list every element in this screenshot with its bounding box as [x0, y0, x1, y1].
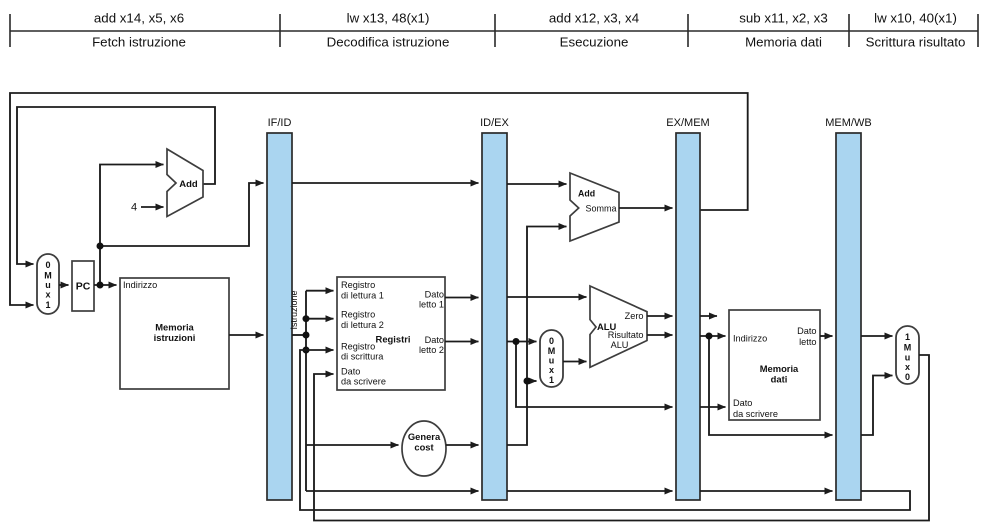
- svg-text:Indirizzo: Indirizzo: [123, 280, 157, 290]
- wire: read data 1 to ID/EX: [445, 297, 479, 299]
- wire: read data 2 from ID/EX to mux M2: [507, 341, 537, 343]
- ALU: [590, 286, 647, 367]
- wire: data memory read data to MEM/WB: [820, 335, 833, 337]
- mux M2 (ALU source): [540, 330, 563, 387]
- wire: Zero to EX/MEM: [647, 315, 673, 317]
- svg-text:Memoria dati: Memoria dati: [745, 34, 822, 49]
- wire: Zero stub out of EX/MEM: [700, 315, 717, 317]
- immediate generator Genera cost: [402, 421, 446, 476]
- svg-text:EX/MEM: EX/MEM: [666, 117, 709, 129]
- wire: rd field to ID/EX: [306, 490, 479, 492]
- svg-text:1: 1: [549, 375, 554, 385]
- wire: PC value to IF/ID: [100, 183, 264, 246]
- adder Somma (branch target): [570, 173, 619, 241]
- svg-text:Esecuzione: Esecuzione: [560, 34, 629, 49]
- instruction memory box: [120, 278, 229, 389]
- svg-text:Add: Add: [179, 179, 198, 190]
- wire: Somma output to EX/MEM: [619, 207, 673, 209]
- adder Add (PC+4): [167, 149, 203, 217]
- svg-text:IF/ID: IF/ID: [268, 117, 292, 129]
- wire: read data from MEM/WB to mux M3: [861, 335, 893, 337]
- wire: instruction bus vertical: [305, 291, 307, 491]
- header instruction labels: [94, 11, 957, 26]
- wire: ALU result bypass to MEM/WB: [709, 336, 833, 435]
- svg-text:di lettura 2: di lettura 2: [341, 320, 384, 330]
- svg-text:M: M: [548, 346, 556, 356]
- mux M1 (PC source): [37, 254, 59, 314]
- wire: rd field ID/EX to EX/MEM: [507, 490, 673, 492]
- wire: write data return loop to Registri: [314, 355, 929, 521]
- svg-text:add x12, x3, x4: add x12, x3, x4: [549, 11, 639, 26]
- svg-text:Add: Add: [578, 189, 595, 199]
- svg-text:0: 0: [549, 336, 554, 346]
- svg-text:Dato: Dato: [425, 290, 444, 300]
- wire: ALU result to EX/MEM: [647, 334, 673, 336]
- svg-text:Risultato: Risultato: [608, 330, 644, 340]
- wire: to read register 1: [306, 290, 334, 292]
- data memory box: [729, 310, 820, 420]
- svg-text:1: 1: [905, 332, 910, 342]
- header stage name labels: [92, 34, 965, 49]
- svg-text:lw x13, 48(x1): lw x13, 48(x1): [347, 11, 430, 26]
- wire: write register number return loop to Registri: [300, 350, 910, 510]
- svg-text:u: u: [905, 353, 911, 363]
- svg-text:add x14, x5, x6: add x14, x5, x6: [94, 11, 184, 26]
- header stage tick marks: [10, 14, 978, 47]
- wire: PC+4 loop Add output to PC mux: [17, 107, 215, 264]
- node: instruction bus junction: [303, 332, 310, 339]
- wire: store data from EX/MEM to data memory: [700, 406, 726, 408]
- node: write register crossing junction: [303, 347, 310, 354]
- wire: PC through IF/ID to ID/EX: [292, 182, 479, 184]
- svg-text:4: 4: [131, 202, 137, 214]
- svg-text:0: 0: [905, 372, 910, 382]
- node: read register 2 junction: [303, 315, 310, 322]
- svg-text:MEM/WB: MEM/WB: [825, 117, 871, 129]
- wire: PC value up to Add input: [100, 165, 164, 286]
- wire: instruction memory output to IF/ID: [229, 334, 264, 336]
- svg-text:da scrivere: da scrivere: [341, 377, 386, 387]
- svg-text:Dato: Dato: [425, 335, 444, 345]
- svg-text:Decodifica istruzione: Decodifica istruzione: [327, 34, 450, 49]
- svg-text:Zero: Zero: [625, 311, 644, 321]
- svg-text:Memoria: Memoria: [155, 322, 194, 333]
- wire: to immediate generator: [306, 444, 399, 446]
- node: PC branch junction: [97, 243, 104, 250]
- wire: ALU result from MEM/WB to mux M3: [861, 376, 893, 436]
- svg-text:Memoria: Memoria: [760, 363, 799, 374]
- svg-text:1: 1: [45, 300, 50, 310]
- svg-text:u: u: [549, 356, 555, 366]
- svg-text:Registri: Registri: [376, 334, 411, 345]
- svg-text:letto: letto: [799, 337, 816, 347]
- wire: read data 2 to ID/EX: [445, 341, 479, 343]
- node: read data 2 junction: [513, 338, 520, 345]
- svg-text:M: M: [44, 271, 52, 281]
- wire: ALU result from EX/MEM to data memory address: [700, 335, 726, 337]
- svg-text:Scrittura risultato: Scrittura risultato: [866, 34, 966, 49]
- wire: constant 4 to Add: [141, 206, 164, 208]
- svg-text:Dato: Dato: [797, 326, 816, 336]
- svg-text:M: M: [904, 343, 912, 353]
- pipeline register MEM/WB: [836, 133, 861, 500]
- svg-text:Fetch istruzione: Fetch istruzione: [92, 34, 186, 49]
- wire: immediate branch to mux M2: [527, 380, 537, 382]
- svg-text:Indirizzo: Indirizzo: [733, 334, 767, 344]
- svg-text:Istruzione: Istruzione: [289, 290, 299, 329]
- svg-text:u: u: [45, 280, 51, 290]
- wire: PC to instruction memory address: [94, 284, 117, 286]
- svg-text:da scrivere: da scrivere: [733, 409, 778, 419]
- wire: PC from ID/EX to adder Somma: [507, 183, 567, 185]
- wire: read data 1 from ID/EX to ALU: [507, 296, 587, 298]
- pipeline register ID/EX: [482, 133, 507, 500]
- wire: mux M2 output to ALU: [563, 361, 587, 363]
- svg-text:x: x: [45, 290, 50, 300]
- pipeline register IF/ID: [267, 133, 292, 500]
- svg-text:sub x11, x2, x3: sub x11, x2, x3: [739, 11, 827, 26]
- svg-text:x: x: [549, 365, 554, 375]
- svg-text:PC: PC: [76, 281, 91, 293]
- svg-text:Registro: Registro: [341, 342, 375, 352]
- node: immediate junction: [524, 378, 531, 385]
- svg-text:ID/EX: ID/EX: [480, 117, 509, 129]
- svg-text:0: 0: [45, 260, 50, 270]
- header timeline line: [10, 30, 978, 32]
- node: ALU result junction: [706, 333, 713, 340]
- svg-text:Dato: Dato: [733, 398, 752, 408]
- svg-text:letto 1: letto 1: [419, 300, 444, 310]
- mux M3 (write-back source): [896, 326, 919, 384]
- svg-text:ALU: ALU: [611, 340, 629, 350]
- pipeline register EX/MEM: [676, 133, 700, 500]
- svg-text:dati: dati: [771, 374, 788, 385]
- svg-text:Somma: Somma: [585, 204, 616, 214]
- svg-text:lw x10, 40(x1): lw x10, 40(x1): [874, 11, 957, 26]
- wire: read data 2 branch to EX/MEM (store data): [516, 342, 673, 408]
- svg-text:Dato: Dato: [341, 367, 360, 377]
- wire: to read register 2: [306, 318, 334, 320]
- svg-text:cost: cost: [414, 442, 433, 453]
- wire: branch-target outer loop EX/MEM to PC mux: [10, 93, 748, 305]
- svg-text:letto 2: letto 2: [419, 345, 444, 355]
- svg-text:di lettura 1: di lettura 1: [341, 291, 384, 301]
- node: PC output junction: [97, 282, 104, 289]
- svg-text:Genera: Genera: [408, 431, 441, 442]
- svg-text:Registro: Registro: [341, 280, 375, 290]
- svg-text:di scrittura: di scrittura: [341, 352, 384, 362]
- svg-text:istruzioni: istruzioni: [154, 332, 196, 343]
- wire: rd field EX/MEM to MEM/WB: [700, 490, 833, 492]
- svg-text:x: x: [905, 362, 910, 372]
- wire: mux M1 to PC: [59, 284, 69, 286]
- wire: immediate from ID/EX up to Somma: [507, 227, 567, 446]
- wire: immediate generator output to ID/EX: [446, 444, 479, 446]
- svg-text:Registro: Registro: [341, 310, 375, 320]
- register PC: [72, 261, 94, 311]
- register file Registri: [337, 277, 445, 390]
- wire: instruction bus from IF/ID: [292, 334, 306, 336]
